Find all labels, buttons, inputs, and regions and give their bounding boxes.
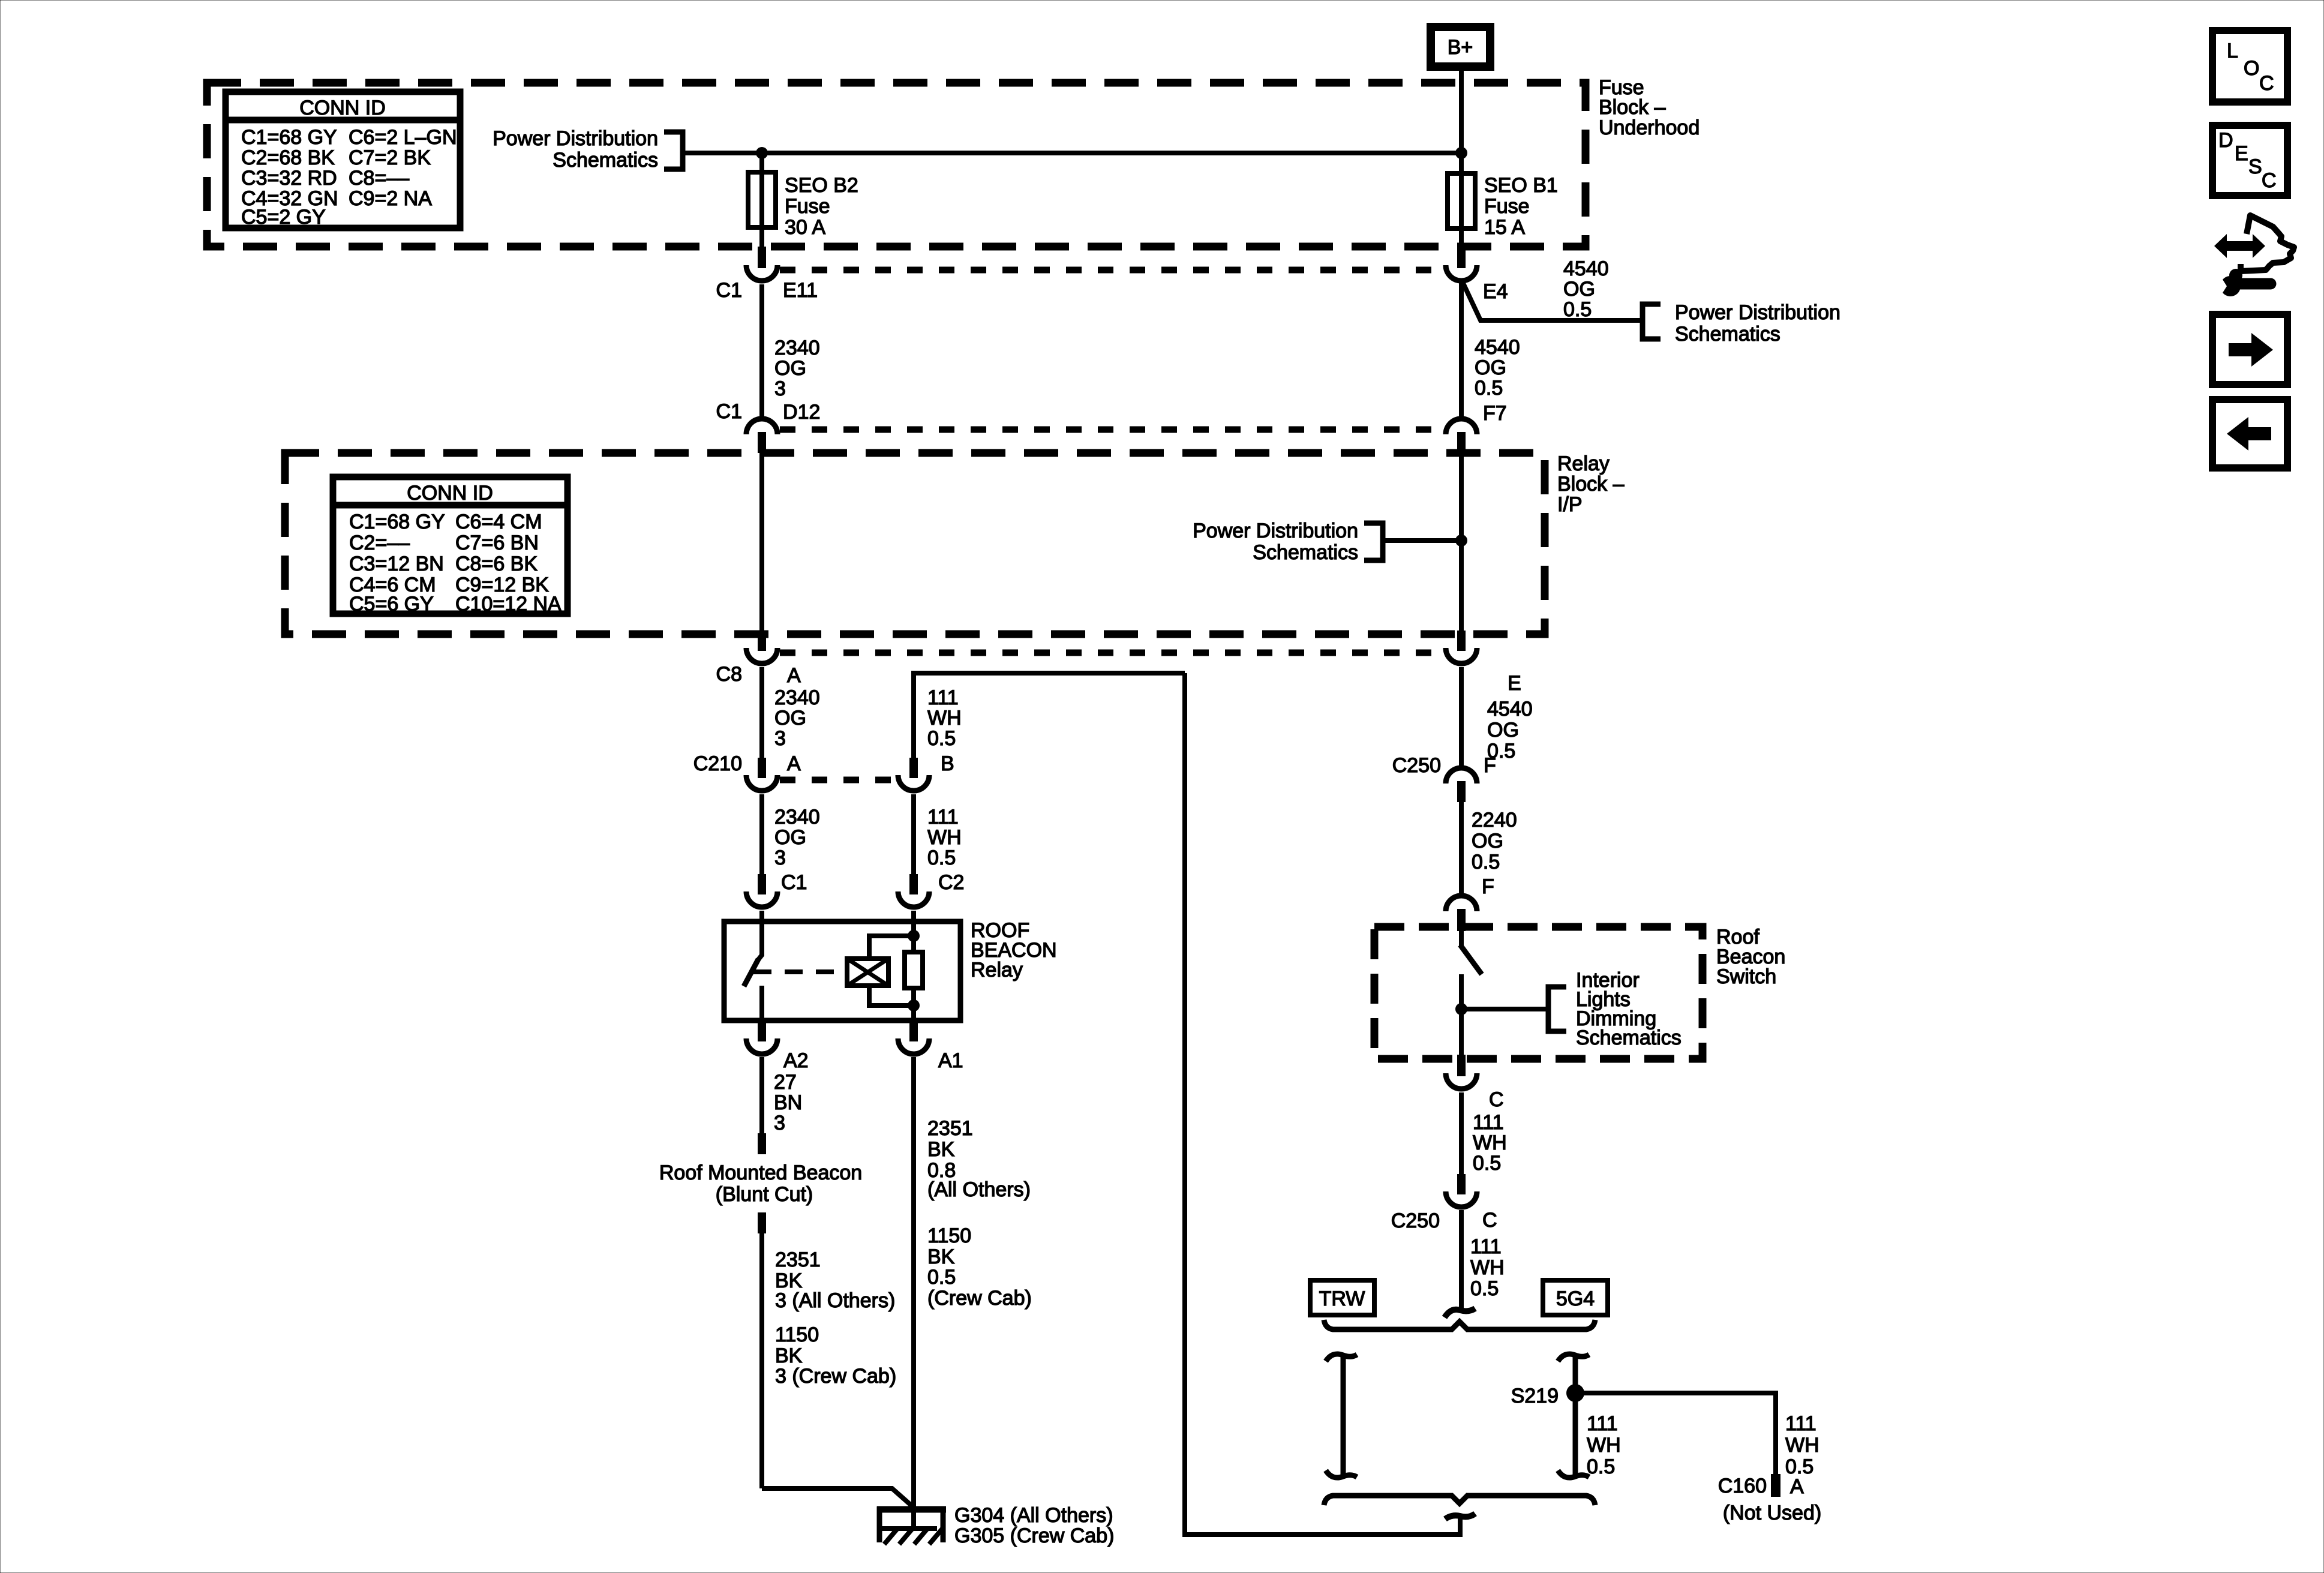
svg-text:0.5: 0.5 [1785,1455,1813,1478]
svg-text:C5=2 GY: C5=2 GY [241,206,326,229]
svg-text:3: 3 [774,727,786,750]
relay coil (crossed box) [847,959,888,986]
power distribution schematics reference (right tap) [1643,301,1840,346]
connector pin E [1446,631,1521,695]
svg-text:111: 111 [1785,1412,1816,1435]
power distribution schematics reference (top left) [493,127,683,172]
svg-text:Block –: Block – [1599,96,1666,119]
svg-text:(All Others): (All Others) [927,1178,1031,1201]
svg-text:BK: BK [775,1344,803,1367]
svg-text:F: F [1484,754,1496,777]
label roof mounted beacon [659,1161,862,1206]
wire B+ to fuse block [1459,67,1464,173]
splice S219 [1566,1384,1584,1402]
relay switch contact [744,921,762,1020]
svg-text:A2: A2 [783,1049,809,1072]
svg-text:Fuse: Fuse [785,195,830,218]
junction node coil top [908,930,920,942]
wire 111 WH 0.5 switch C to C250 C [1459,1092,1464,1174]
roof beacon relay box [724,921,960,1020]
svg-text:A: A [1790,1475,1804,1498]
connector switch pin C [1446,1055,1504,1111]
svg-text:I/P: I/P [1557,493,1583,516]
svg-text:BK: BK [927,1245,955,1268]
svg-text:Switch: Switch [1716,965,1776,988]
connector relay pin C2 [898,871,964,907]
svg-text:C7=2 BK: C7=2 BK [349,146,431,169]
wire relay A1 out of box [911,1005,916,1020]
wire 2340 OG 3 C210 A to relay C1 [759,794,764,874]
svg-text:(Crew Cab): (Crew Cab) [927,1287,1032,1310]
junction node coil bottom [908,999,920,1011]
svg-text:C1: C1 [716,279,742,302]
label wire 4540 OG 0.5 (tap) [1563,257,1609,321]
svg-text:WH: WH [927,707,962,730]
relay suppression resistor [905,936,923,1005]
svg-text:B: B [941,752,954,775]
svg-text:C8=––: C8=–– [349,167,409,190]
connector C210 pin A [693,752,801,791]
svg-text:Relay: Relay [1557,452,1610,475]
svg-text:OG: OG [1487,719,1519,742]
wire switch to dimming tap [1461,1007,1548,1011]
svg-text:C3=12 BN: C3=12 BN [349,553,444,575]
svg-text:OG: OG [1563,278,1595,301]
harness brace (top) [1324,1320,1595,1329]
svg-text:OG: OG [1472,830,1503,852]
svg-text:C: C [1489,1088,1504,1111]
svg-text:E: E [1508,672,1521,695]
svg-text:4540: 4540 [1487,698,1533,721]
wire 4540 OG 0.5 tap to power distribution (right) [1463,282,1640,320]
relay control dashed line [753,969,845,974]
svg-text:0.5: 0.5 [927,846,956,869]
connector C250 pin C [1391,1174,1497,1232]
junction node dimming tap [1455,1003,1467,1015]
connector C1 pin D12 [716,400,821,453]
svg-text:Schematics: Schematics [1253,541,1358,564]
label wire 4540 OG 0.5 [1475,336,1520,400]
svg-text:(Not Used): (Not Used) [1723,1502,1821,1524]
B+ battery feed terminal [1431,27,1490,67]
svg-text:C7=6 BN: C7=6 BN [455,532,539,554]
svg-text:0.5: 0.5 [1587,1455,1615,1478]
harness brace (bottom) [1324,1496,1595,1505]
wire relay C1 into box [759,911,764,921]
label wire 2351 BK 3 (All Others) [775,1248,895,1312]
wire B+ feed through relay block (right branch) [1459,453,1464,631]
label wire 2340 OG 3 [774,686,820,750]
svg-text:C8=6 BK: C8=6 BK [455,553,538,575]
harness option bar (left) [1326,1354,1357,1478]
svg-text:111: 111 [927,806,959,828]
svg-text:C1: C1 [716,400,742,423]
connector relay pin A2 [746,1020,809,1072]
svg-text:C160: C160 [1718,1475,1767,1497]
svg-text:E: E [2235,142,2248,165]
icon LOC [2212,31,2287,102]
svg-text:3: 3 [774,1112,785,1134]
svg-text:SEO B2: SEO B2 [785,174,858,197]
wire 4540 OG 0.5 E to C250 F [1459,667,1464,766]
svg-text:A: A [787,752,801,775]
svg-text:C2=68 BK: C2=68 BK [241,146,335,169]
label wire 111 WH 0.5 [927,806,962,869]
svg-text:C: C [2259,72,2274,95]
svg-text:Power Distribution: Power Distribution [493,127,658,150]
label SEO B2 fuse [785,174,858,239]
wire switch output [1459,1009,1464,1055]
svg-text:C1=68 GY: C1=68 GY [241,126,337,149]
connector row C210 A-B dotted boundary [780,777,897,784]
wire 111 WH 0.5 C210 B to relay C2 [911,794,916,874]
svg-text:111: 111 [927,686,959,709]
label Roof Beacon Switch [1716,926,1785,988]
wire 2351 BK continuation [758,1212,766,1233]
svg-text:2240: 2240 [1472,809,1517,831]
svg-text:111: 111 [1587,1412,1618,1435]
svg-text:C: C [2262,169,2277,192]
svg-text:1150: 1150 [775,1323,819,1346]
wire 2340 OG 3 E11 to D12 [759,284,764,416]
svg-text:WH: WH [1785,1434,1819,1457]
svg-text:0.5: 0.5 [1470,1277,1499,1300]
svg-text:Schematics: Schematics [1576,1026,1682,1049]
svg-text:3: 3 [774,846,786,869]
junction node at SEO B2 fuse tap [756,147,768,159]
connector C210 pin B [898,752,954,791]
icon wiring repair (arrow + wrench) [2214,215,2294,296]
svg-text:2340: 2340 [774,686,820,709]
icon next arrow [2212,314,2287,385]
wire relay block tap [1383,538,1461,543]
wire S219 to C160 [1575,1393,1776,1474]
svg-text:E11: E11 [783,279,818,302]
connector relay pin A1 [898,1020,963,1072]
svg-text:30 A: 30 A [785,216,825,239]
connector C250 pin F [1392,754,1496,802]
svg-text:CONN ID: CONN ID [407,482,493,505]
label wire 111 WH 0.5 [1473,1111,1507,1175]
svg-text:S219: S219 [1511,1385,1559,1407]
svg-text:Power Distribution: Power Distribution [1193,520,1358,542]
svg-text:111: 111 [1470,1235,1502,1258]
label ROOF BEACON Relay [971,919,1057,981]
svg-text:15 A: 15 A [1484,216,1525,239]
svg-text:3 (All Others): 3 (All Others) [775,1289,895,1312]
svg-text:F7: F7 [1483,402,1507,425]
harness code TRW box [1310,1280,1374,1315]
svg-text:Relay: Relay [971,959,1023,981]
connector C1 pin E11 [716,247,818,302]
label wire 2240 OG 0.5 [1472,809,1517,873]
svg-text:C250: C250 [1392,754,1441,777]
wire B+ feed through relay block (left branch) [759,453,764,631]
relay block label [1557,452,1625,516]
svg-text:5G4: 5G4 [1556,1287,1595,1310]
label wire 2340 OG 3 [774,806,820,869]
label wire 1150 BK 3 (Crew Cab) [775,1323,896,1388]
svg-text:Roof Mounted Beacon: Roof Mounted Beacon [659,1161,862,1184]
label ground G304 G305 [954,1504,1114,1547]
fuse block underhood dashed box [207,83,1586,247]
svg-text:Underhood: Underhood [1599,116,1700,139]
svg-text:BN: BN [774,1091,802,1114]
svg-text:C1: C1 [781,871,807,894]
harness continuation hook (bottom) [1445,1514,1475,1519]
connector pin F7 [1446,402,1507,453]
svg-text:C: C [1482,1209,1497,1232]
svg-text:C3=32 RD: C3=32 RD [241,167,337,190]
svg-text:C2=––: C2=–– [349,532,410,554]
label wire 111 WH 0.5 [1470,1235,1505,1300]
connector row D12-F7 dotted boundary [780,427,1443,433]
svg-text:E4: E4 [1483,280,1508,303]
svg-text:0.5: 0.5 [1475,377,1503,400]
svg-text:0.5: 0.5 [927,727,956,750]
svg-text:S: S [2248,155,2262,178]
label wire 2340 OG 3 [774,337,820,400]
svg-text:1150: 1150 [927,1224,971,1247]
connector row E11-E4 dotted boundary [780,267,1443,274]
CONN ID table (fuse block) [226,92,460,229]
wire SEO B2 fuse to connector E11 [759,227,764,248]
connector C160 pin A (not used) [1718,1474,1821,1524]
svg-text:TRW: TRW [1319,1287,1365,1310]
svg-text:O: O [2244,57,2259,80]
relay block I/P dashed box [285,453,1545,634]
wire relay C2 into box [911,911,916,936]
fuse block label [1599,76,1700,139]
ground G304 / G305 [877,1506,946,1544]
svg-text:C2: C2 [938,871,964,894]
svg-text:Power Distribution: Power Distribution [1675,301,1840,324]
icon DESC [2212,125,2287,196]
wire tap to SEO B2 fuse [759,153,764,172]
wire power distribution tap to B+ feed [683,151,1461,155]
svg-text:C5=6 GY: C5=6 GY [349,593,434,616]
roof beacon switch dashed box [1374,927,1703,1059]
svg-text:WH: WH [1470,1256,1505,1279]
svg-text:C10=12 NA: C10=12 NA [455,593,562,616]
wire 2240 OG 0.5 C250 F to switch [1459,802,1464,894]
svg-text:B+: B+ [1448,36,1473,59]
svg-text:C210: C210 [693,752,742,775]
svg-text:OG: OG [774,357,806,380]
svg-text:Block –: Block – [1557,473,1625,496]
svg-text:WH: WH [927,826,962,849]
switch contact blade [1460,931,1482,1009]
svg-text:G305 (Crew Cab): G305 (Crew Cab) [954,1524,1114,1547]
svg-text:C250: C250 [1391,1209,1440,1232]
label wire 27 BN 3 [774,1071,802,1134]
wire 4540 OG 0.5 E4 to F7 [1459,282,1464,416]
svg-text:WH: WH [1587,1434,1621,1457]
harness code 5G4 box [1543,1280,1608,1315]
label wire 111 WH 0.5 at C160 [1785,1412,1819,1478]
svg-text:C6=4 CM: C6=4 CM [455,511,542,533]
svg-text:27: 27 [774,1071,797,1094]
harness option bar (right) with splice S219 [1558,1354,1589,1478]
label wire 1150 BK 0.5 (Crew Cab) [927,1224,1032,1310]
svg-text:C8: C8 [716,663,742,686]
svg-text:BK: BK [927,1138,955,1161]
svg-text:D12: D12 [783,401,820,424]
svg-text:0.5: 0.5 [1472,851,1500,873]
svg-text:Fuse: Fuse [1484,195,1530,218]
svg-text:0.5: 0.5 [927,1266,956,1289]
svg-text:3: 3 [774,377,786,400]
svg-text:C6=2 L–GN: C6=2 L–GN [349,126,457,149]
svg-text:C9=2 NA: C9=2 NA [349,187,432,210]
label wire 4540 OG 0.5 [1487,698,1533,763]
svg-text:OG: OG [774,707,806,730]
connector C8 pin A [716,631,801,687]
svg-text:OG: OG [1475,356,1506,379]
svg-text:111: 111 [1473,1111,1504,1134]
svg-text:0.5: 0.5 [1473,1152,1501,1175]
label wire 111 WH 0.5 below S219 [1587,1412,1621,1478]
fuse SEO B2 30 A [748,172,776,227]
wire blunt cut end [758,1133,766,1154]
power distribution schematics reference (relay block) [1193,520,1383,564]
junction node at SEO B1 fuse tap [1455,147,1467,159]
svg-text:Schematics: Schematics [1675,323,1780,346]
wire 27 BN 3 from A2 [759,1057,764,1133]
wire SEO B1 fuse to connector E4 [1459,229,1464,249]
label wire 111 WH 0.5 [927,686,962,750]
svg-text:Schematics: Schematics [553,149,658,172]
svg-text:4540: 4540 [1475,336,1520,359]
svg-text:0.5: 0.5 [1563,298,1592,321]
interior lights dimming schematics reference [1548,969,1682,1049]
CONN ID table (relay block) [333,477,568,616]
wire 111 WH 0.5 C250 C to harness [1459,1210,1464,1309]
svg-text:OG: OG [774,826,806,849]
wire 2351 BK 0.8 from A1 [911,1057,916,1506]
svg-text:A: A [787,664,801,687]
svg-text:(Blunt Cut): (Blunt Cut) [716,1183,813,1206]
svg-text:2340: 2340 [774,806,820,828]
connector row A-E dotted boundary [780,650,1443,656]
junction node relay block tap [1455,535,1467,547]
svg-text:F: F [1482,875,1494,898]
wire A2 branch to ground [762,1488,912,1506]
svg-text:WH: WH [1473,1131,1507,1154]
svg-text:L: L [2227,40,2238,62]
wire 111 WH 0.5 from C210 B up and over [914,673,1185,758]
harness continuation hook (top) [1445,1308,1475,1317]
wire coil loop [869,936,914,959]
connector switch pin F [1446,875,1494,931]
icon back arrow [2212,400,2287,468]
svg-text:G304 (All Others): G304 (All Others) [954,1504,1113,1527]
svg-text:3 (Crew Cab): 3 (Crew Cab) [775,1365,896,1388]
wire 2340 OG 3 A to C210 A [759,667,764,758]
svg-text:C1=68 GY: C1=68 GY [349,511,445,533]
svg-text:CONN ID: CONN ID [299,97,386,119]
svg-text:2351: 2351 [927,1117,973,1140]
fuse SEO B1 15 A [1448,173,1475,229]
connector relay pin C1 [746,871,807,907]
connector pin E4 [1446,248,1508,303]
wire 111 WH 0.5 long run down [1185,673,1460,1535]
svg-text:SEO B1: SEO B1 [1484,174,1558,197]
label SEO B1 fuse [1484,174,1558,239]
label wire 2351 BK 0.8 (All Others) [927,1117,1031,1201]
svg-text:2340: 2340 [774,337,820,359]
svg-text:A1: A1 [938,1049,963,1072]
svg-text:4540: 4540 [1563,257,1609,280]
svg-text:2351: 2351 [775,1248,821,1271]
svg-text:D: D [2218,129,2233,152]
